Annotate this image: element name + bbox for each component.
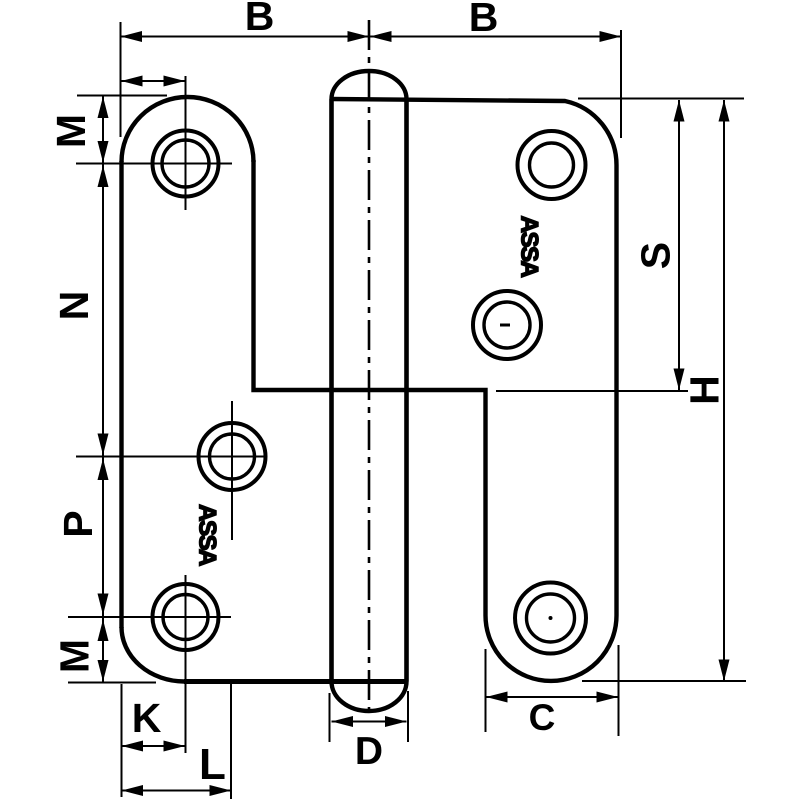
hole LB horizontal center line <box>68 616 231 618</box>
arrows hole offset top <box>121 76 143 87</box>
svg-text:M: M <box>52 639 98 673</box>
hole LM horizontal center line <box>76 456 266 458</box>
dim C line <box>486 696 618 698</box>
ext bottom M reference <box>68 682 156 684</box>
hole LT vertical center line <box>185 76 187 210</box>
arrows D <box>332 716 354 727</box>
ext C right <box>618 645 620 736</box>
barrel left edge <box>329 99 334 682</box>
svg-text:D: D <box>355 730 383 773</box>
dim S line <box>678 100 680 390</box>
left leaf bottom-left corner arc <box>122 627 185 682</box>
barrel top dome <box>332 71 407 99</box>
arrows P <box>98 459 109 481</box>
ext D left <box>329 693 331 742</box>
arrows B right <box>370 31 392 42</box>
svg-text:B: B <box>469 0 499 40</box>
hole LB vertical center line <box>185 575 187 753</box>
svg-text:P: P <box>55 510 101 537</box>
left leaf upper-right edge + step to barrel <box>254 160 407 390</box>
ext D right <box>407 691 409 742</box>
ext C left <box>485 649 487 732</box>
svg-text:B: B <box>245 0 275 39</box>
svg-text:K: K <box>132 695 162 741</box>
svg-text:L: L <box>199 740 226 789</box>
arrows S <box>674 100 685 122</box>
dim L line <box>122 790 232 792</box>
arrows C <box>486 692 508 703</box>
arrows N <box>98 166 109 188</box>
arrows K <box>122 741 144 752</box>
dim hole offset top line <box>121 80 185 82</box>
dim B left line <box>121 36 370 38</box>
ext right plate right top <box>620 30 622 138</box>
dim B right line <box>370 36 621 38</box>
hole right-bottom <box>515 583 586 654</box>
arrows M top <box>98 97 109 119</box>
ext S bottom <box>496 390 688 392</box>
dim H line <box>723 100 725 681</box>
ext H top <box>578 98 744 100</box>
arrows L <box>122 785 144 796</box>
svg-text:M: M <box>48 114 94 148</box>
ext below middle hole (L) <box>230 682 232 799</box>
barrel bottom dome <box>332 682 407 712</box>
left leaf left edge <box>119 161 123 628</box>
svg-text:C: C <box>529 697 556 738</box>
svg-text:ASSA: ASSA <box>194 504 221 566</box>
svg-text:N: N <box>51 291 97 321</box>
dim chain M N P M line <box>102 96 104 683</box>
arrows H <box>719 100 730 122</box>
left leaf top rounded cap <box>122 97 254 162</box>
dim K line <box>122 745 186 747</box>
hole left-top <box>153 131 219 197</box>
ext top M reference <box>77 95 167 97</box>
arrows B left <box>121 31 143 42</box>
hole left-bottom <box>153 584 219 650</box>
svg-text:H: H <box>682 375 728 405</box>
ext below left edge <box>121 684 123 797</box>
hole right-middle <box>473 291 541 359</box>
arrows M bottom <box>98 620 109 642</box>
svg-text:S: S <box>633 242 679 269</box>
svg-text:ASSA: ASSA <box>516 216 543 278</box>
left leaf bottom edge (runs to barrel right edge) <box>184 679 407 684</box>
hole LM vertical center line <box>231 401 233 540</box>
hole left-middle <box>199 423 266 490</box>
hole right-top <box>518 131 586 199</box>
right leaf top edge (runs from barrel left edge) <box>332 99 617 681</box>
ext H bottom <box>582 680 746 682</box>
barrel right edge <box>404 99 409 682</box>
ext left edge top <box>120 22 122 137</box>
hole LT horizontal center line <box>76 163 232 165</box>
dim D line <box>332 721 407 723</box>
center dots of right holes <box>500 324 553 621</box>
